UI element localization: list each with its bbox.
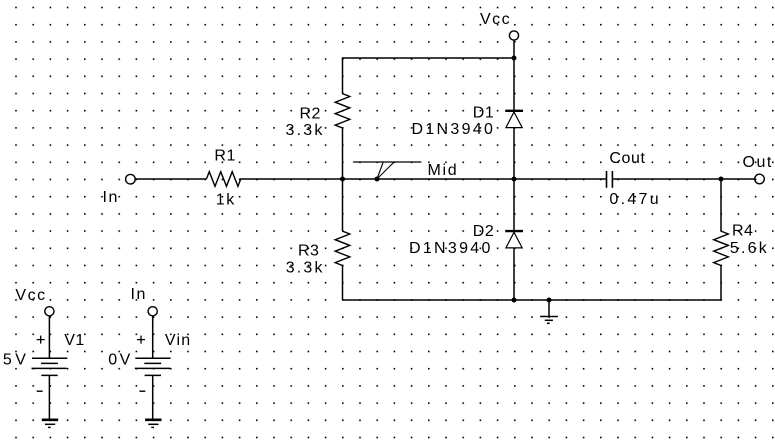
wire Vin minus lead: [152, 375, 154, 419]
svg-text:Cout: Cout: [609, 150, 645, 167]
ground V1: [42, 418, 58, 421]
port Vcc circle: [509, 31, 518, 40]
svg-text:R3: R3: [298, 242, 319, 259]
svg-text:D2: D2: [473, 223, 494, 240]
diode D2: [505, 231, 523, 248]
wire top rail Vcc: [343, 57, 515, 59]
svg-text:Mid: Mid: [428, 162, 459, 179]
svg-text:R2: R2: [300, 106, 321, 123]
svg-text:0V: 0V: [108, 352, 133, 369]
minus sign Vin: [139, 390, 145, 392]
svg-text:5.6k: 5.6k: [730, 240, 769, 257]
battery plates Vin: [135, 357, 170, 359]
wire D2 bottom: [513, 248, 515, 300]
battery plates V1: [32, 357, 67, 359]
port Vcc bottom circle: [45, 307, 54, 316]
resistor R4: [714, 231, 729, 265]
junction D column on mid rail: [512, 177, 517, 182]
wire R2 top from rail: [342, 57, 344, 93]
svg-text:R4: R4: [732, 223, 753, 240]
wire R2 bottom: [342, 128, 344, 179]
wire D2 top: [513, 179, 515, 231]
wire In to R1: [135, 178, 206, 180]
wire Cout to Out: [612, 178, 755, 180]
source V1: [32, 307, 68, 428]
junction D2 bottom rail: [512, 298, 517, 303]
port In circle: [126, 174, 136, 184]
wire D1 top: [513, 58, 515, 111]
source Vin: [135, 307, 171, 428]
svg-text:D1N3940: D1N3940: [412, 121, 496, 138]
svg-text:Out: Out: [743, 154, 773, 171]
capacitor Cout: [607, 171, 613, 188]
port In bottom circle: [148, 307, 157, 316]
svg-text:In: In: [131, 286, 147, 303]
plus sign Vin: [137, 339, 145, 341]
node Mid flag: [353, 162, 421, 179]
wire R3 bottom: [342, 266, 344, 301]
plus sign V1: [37, 339, 45, 341]
svg-text:In: In: [103, 189, 119, 206]
svg-text:Vcc: Vcc: [15, 287, 46, 304]
wire Vcc stem: [513, 40, 515, 58]
resistor R3: [335, 231, 350, 265]
svg-text:1k: 1k: [216, 191, 236, 208]
svg-text:D1: D1: [473, 104, 494, 121]
junction R4 top: [719, 177, 724, 182]
wire mid rail to Cout: [514, 178, 607, 180]
resistor R2: [335, 94, 350, 128]
ground Vin: [145, 418, 161, 421]
wire R4 bottom: [720, 266, 722, 301]
port Out circle: [755, 174, 765, 184]
svg-text:Vin: Vin: [165, 332, 191, 349]
wire D1 bottom: [513, 128, 515, 179]
minus sign V1: [37, 390, 43, 392]
junction mid left: [340, 177, 345, 182]
svg-text:V1: V1: [64, 332, 85, 349]
wire R1 to mid node: [240, 178, 343, 180]
svg-text:D1N3940: D1N3940: [409, 240, 493, 257]
wire R4 top: [720, 179, 722, 231]
wire R3 top: [342, 179, 344, 231]
wire Vin plus lead: [152, 316, 154, 358]
svg-text:5V: 5V: [3, 352, 30, 369]
resistor R1: [206, 172, 240, 187]
ground node symbol: [540, 300, 558, 323]
svg-text:3.3k: 3.3k: [286, 122, 325, 139]
junction ground on bottom rail: [547, 298, 552, 303]
svg-text:3.3k: 3.3k: [286, 259, 325, 276]
wire bottom rail: [343, 299, 722, 301]
wire V1 plus lead: [48, 316, 50, 358]
svg-text:0.47u: 0.47u: [609, 191, 661, 208]
wire mid rail: [343, 178, 515, 180]
diode D1: [505, 111, 523, 128]
wire V1 minus lead: [48, 375, 50, 419]
svg-text:Vcc: Vcc: [480, 11, 511, 28]
svg-text:R1: R1: [214, 148, 235, 165]
junction Mid flag: [375, 177, 380, 182]
junction at Vcc rail: [512, 56, 517, 61]
